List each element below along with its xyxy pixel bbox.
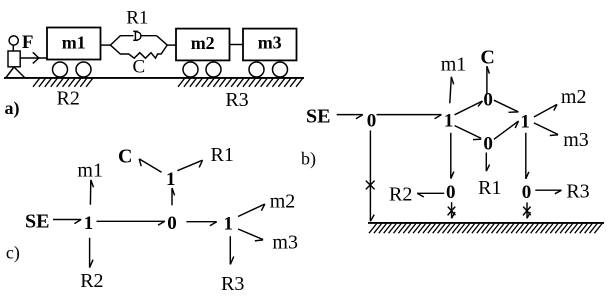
bond right 1 to m2 [238, 204, 265, 217]
ground line b) [368, 222, 604, 224]
crossed bond bottom-right 0 to ground [523, 202, 531, 218]
svg-text:m1: m1 [62, 32, 86, 52]
svg-text:R3: R3 [566, 181, 589, 203]
wheels of m1 [53, 62, 92, 77]
svg-text:R2: R2 [389, 184, 412, 206]
svg-text:0: 0 [483, 134, 493, 155]
bond left 0 down to ground (with cross) [366, 131, 375, 222]
mass m2 box [176, 29, 230, 61]
bond left 1 down to 0 [451, 133, 454, 179]
bond 1 to m1 [90, 180, 93, 205]
wire m2-m3 link [230, 44, 244, 46]
crossed bond bottom-left 0 to ground [448, 202, 456, 218]
bond upper 1 to C [139, 159, 161, 172]
svg-text:R1: R1 [126, 8, 148, 29]
svg-text:m2: m2 [270, 190, 296, 212]
svg-text:1: 1 [223, 214, 233, 235]
bond lower 0 to R1 [486, 153, 489, 172]
mass m3 box [243, 29, 297, 61]
bond right 1 to m3 [534, 123, 558, 136]
bond right 1 down to 0 [526, 133, 529, 179]
svg-text:R3: R3 [225, 89, 248, 111]
bond right 1 to m3 [238, 229, 263, 241]
svg-text:R3: R3 [221, 273, 244, 295]
bond upper 1 to R1 [177, 160, 202, 171]
svg-text:1: 1 [166, 169, 176, 190]
damper R1 branch (upper) [110, 31, 167, 45]
svg-text:c): c) [6, 243, 20, 264]
svg-text:R2: R2 [57, 87, 80, 109]
svg-text:1: 1 [520, 112, 530, 133]
svg-text:m2: m2 [191, 33, 215, 53]
svg-text:1: 1 [84, 213, 94, 234]
svg-text:m1: m1 [441, 53, 467, 75]
bond 0 to upper 1 [172, 188, 175, 205]
svg-text:SE: SE [25, 211, 49, 233]
bond 1 to upper 0 [455, 101, 483, 115]
svg-text:m1: m1 [77, 159, 103, 181]
wire branch node to m2 [167, 44, 176, 46]
ground line a) [4, 77, 304, 79]
bond upper 0 to C [487, 66, 490, 94]
svg-text:C: C [118, 145, 132, 167]
svg-text:b): b) [301, 149, 316, 170]
svg-text:1: 1 [444, 111, 454, 132]
ground hatching R3 region [178, 78, 303, 87]
wire m1 to branch node [101, 44, 111, 46]
svg-text:R1: R1 [211, 144, 234, 166]
bond right 1 to R3 [230, 236, 234, 264]
ground hatching b) [369, 223, 602, 233]
bond right 1 to m2 [534, 104, 557, 117]
person applying force [6, 36, 25, 78]
bond 0 to R2 [417, 193, 444, 197]
force F arrow [20, 52, 47, 63]
ground hatching R2 region [33, 78, 93, 87]
svg-text:0: 0 [367, 111, 377, 132]
bond SE to 0 junction [337, 115, 363, 119]
mass m1 box [47, 28, 101, 60]
wheels of m3 [249, 62, 288, 77]
bond 1 to m1 [450, 77, 454, 104]
bond upper 0 to right 1 [494, 100, 519, 112]
bond 1 to R2 [90, 238, 93, 268]
svg-text:0: 0 [446, 182, 456, 203]
svg-text:R2: R2 [80, 270, 103, 292]
svg-text:R1: R1 [478, 177, 501, 199]
bond 0 to right 1 [186, 222, 216, 226]
svg-text:0: 0 [522, 182, 532, 203]
spring C branch (lower) [110, 45, 167, 58]
svg-text:m3: m3 [258, 33, 282, 53]
bond SE to 1 [53, 220, 81, 224]
svg-text:m3: m3 [563, 129, 589, 151]
svg-text:a): a) [5, 98, 20, 119]
svg-text:SE: SE [306, 106, 330, 128]
bond 0 to R3 [535, 190, 561, 194]
svg-text:F: F [22, 32, 34, 53]
svg-text:0: 0 [167, 213, 177, 234]
svg-text:C: C [132, 57, 145, 78]
svg-text:m2: m2 [561, 86, 587, 108]
bond 0 to 1 junction [377, 115, 442, 119]
svg-text:m3: m3 [272, 231, 298, 253]
svg-text:0: 0 [483, 90, 493, 111]
wheels of m2 [183, 62, 221, 77]
svg-text:C: C [480, 47, 494, 69]
bond 1 to 0 [97, 221, 165, 225]
bond lower 0 to right 1 [494, 121, 519, 139]
bond 1 to lower 0 [455, 126, 482, 140]
